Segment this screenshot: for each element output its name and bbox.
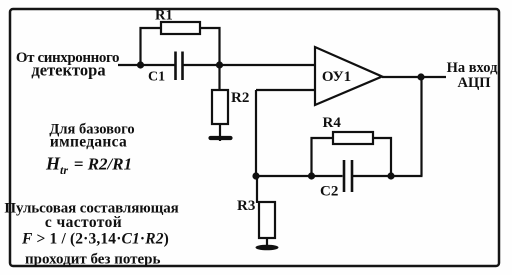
svg-text:R1: R1 — [155, 8, 173, 24]
label C2 — [320, 184, 338, 200]
capacitor C2 — [344, 160, 352, 192]
svg-text:F > 1 / (2·3,14·C1·R2): F > 1 / (2·3,14·C1·R2) — [21, 231, 169, 248]
svg-text:детектора: детектора — [31, 61, 105, 80]
resistor R1 — [161, 22, 200, 34]
ground (below R2) — [211, 136, 231, 140]
svg-text:R4: R4 — [323, 115, 342, 131]
label ОУ1 — [322, 69, 351, 85]
label R1 — [155, 8, 173, 24]
wire: feedback rail from node B1 to C2 left plate — [256, 175, 343, 177]
wire: C1 right plate to node A2 — [184, 64, 221, 66]
annotation: проходит без потерь — [25, 252, 161, 268]
wire: node B2 up and over to R4 — [312, 138, 334, 176]
wire: node A2 down to R2 — [218, 65, 220, 90]
annotation: Пульсовая составляющая с частотой — [4, 201, 178, 232]
resistor R2 — [212, 90, 228, 124]
wire: inverting input down to node B1 — [255, 90, 257, 176]
node A2 (junction of R1, C1, R2, op-amp input) — [216, 61, 223, 68]
wire: node A1 to C1 left plate — [141, 64, 175, 66]
svg-text:R2: R2 — [231, 90, 249, 106]
node A1 (input junction) — [137, 61, 144, 68]
annotation: Для базового импеданса — [49, 122, 134, 151]
svg-text:импеданса: импеданса — [50, 134, 127, 151]
label R4 — [323, 115, 342, 131]
op-amp U1 (ОУ1) — [315, 47, 382, 105]
annotation formula: F > 1/(2*3,14*C1*R2) — [21, 231, 169, 248]
label R2 — [231, 90, 249, 106]
svg-text:АЦП: АЦП — [457, 75, 490, 91]
annotation: На вход АЦП — [447, 60, 499, 91]
wire: node A1 up to R1 branch — [141, 28, 162, 65]
svg-text:проходит без потерь: проходит без потерь — [25, 252, 161, 268]
label C1 — [148, 70, 165, 85]
wire: R4 down to node B3 — [373, 138, 391, 176]
label R3 — [237, 198, 255, 214]
resistor R4 — [333, 132, 373, 144]
wire: R3 to ground — [266, 238, 268, 250]
node B3 (R4/C2 right junction) — [387, 172, 394, 179]
wire: op-amp output to node A3 — [382, 76, 446, 78]
svg-text:ОУ1: ОУ1 — [322, 69, 351, 85]
wire: op-amp inverting input lead — [256, 89, 315, 91]
svg-text:с частотой: с частотой — [45, 214, 122, 231]
svg-text:C1: C1 — [148, 70, 165, 85]
node B1 (feedback rail left junction) — [252, 172, 259, 179]
svg-text:На вход: На вход — [447, 60, 499, 76]
wire: R1 to node A2 — [200, 28, 220, 65]
resistor R3 — [259, 202, 275, 238]
wire: node A2 to op-amp non-inverting input — [220, 64, 316, 66]
wire: C2 right plate to output vertical — [353, 175, 423, 177]
node B2 (R4 left junction) — [308, 172, 315, 179]
node A3 (output junction) — [417, 73, 424, 80]
wire: output node down to feedback rail — [420, 77, 422, 176]
annotation: От синхронного детектора — [16, 50, 119, 80]
wire: input lead from label to node A1 — [118, 64, 141, 66]
annotation formula: Htr = R2/R1 — [45, 154, 132, 178]
ground (below R3) — [256, 245, 279, 251]
wire: R2 to ground — [219, 124, 221, 141]
wire: node B1 down to R3 — [256, 176, 258, 203]
capacitor C1 — [176, 52, 183, 81]
svg-text:C2: C2 — [320, 184, 338, 200]
svg-text:R3: R3 — [237, 198, 255, 214]
svg-text:Htr = R2/R1: Htr = R2/R1 — [45, 154, 132, 178]
